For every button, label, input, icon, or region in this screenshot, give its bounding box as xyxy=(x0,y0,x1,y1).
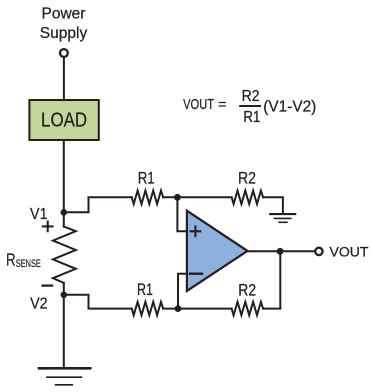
resistor R2 (bottom, feedback) xyxy=(232,302,264,315)
load block LOAD xyxy=(29,100,98,140)
polarity plus (top of RSENSE) xyxy=(43,222,53,232)
op-amp - input marker xyxy=(190,273,202,275)
label Power Supply xyxy=(40,6,88,42)
svg-text:R2: R2 xyxy=(238,282,256,300)
wire: bottom R2 up to output node xyxy=(263,251,280,308)
formula fraction bar xyxy=(240,105,260,107)
wire: power terminal to LOAD xyxy=(63,58,65,99)
svg-text:VOUT: VOUT xyxy=(330,245,369,261)
svg-text:R1: R1 xyxy=(243,109,260,126)
label RSENSE xyxy=(6,250,41,270)
ground (main, below V2) xyxy=(39,368,90,385)
resistor RSENSE (vertical zigzag) xyxy=(53,227,76,283)
svg-text:VOUT: VOUT xyxy=(183,97,214,113)
svg-text:V2: V2 xyxy=(30,296,48,313)
svg-text:R: R xyxy=(6,250,16,270)
wire: LOAD to RSENSE top xyxy=(63,140,65,227)
svg-text:V1: V1 xyxy=(30,206,48,223)
node: output junction dot xyxy=(277,248,284,255)
svg-text:(V1-V2): (V1-V2) xyxy=(263,98,316,115)
terminal VOUT xyxy=(315,248,322,255)
wire: bottom R1 to node B xyxy=(163,308,231,310)
resistor R1 (bottom) xyxy=(132,302,164,315)
node V2 (junction dot) xyxy=(61,292,68,299)
op-amp U1 xyxy=(187,211,248,291)
svg-text:Supply: Supply xyxy=(40,25,88,42)
node A (top R1/R2 junction dot) xyxy=(174,194,181,201)
svg-text:R1: R1 xyxy=(137,281,153,299)
node B (bottom R1/R2 junction dot) xyxy=(175,305,182,312)
svg-text:LOAD: LOAD xyxy=(41,109,87,132)
svg-text:R2: R2 xyxy=(242,88,260,105)
wire: top R1 to node A xyxy=(163,196,231,198)
svg-text:Power: Power xyxy=(42,6,86,23)
svg-text:=: = xyxy=(218,96,227,112)
svg-text:SENSE: SENSE xyxy=(16,258,41,270)
op-amp + input marker xyxy=(191,226,201,236)
wire: V1 to top R1 (right, up, right) xyxy=(64,197,132,212)
resistor R1 (top) xyxy=(132,191,164,204)
wire: RSENSE bottom to V2 node and down to ground xyxy=(63,283,65,368)
polarity minus (bottom of RSENSE) xyxy=(43,284,53,286)
wire: top R2 to ground xyxy=(263,197,283,213)
wire: V2 to bottom R1 (right, down, right) xyxy=(64,295,132,309)
svg-text:R2: R2 xyxy=(238,169,256,187)
resistor R2 (top) xyxy=(232,191,264,204)
ground (at top R2) xyxy=(270,214,295,222)
node V1 (junction dot) xyxy=(61,209,68,216)
wire: node A down to op-amp + input xyxy=(177,197,186,231)
wire: op-amp output to VOUT terminal xyxy=(248,250,315,252)
svg-text:R1: R1 xyxy=(138,169,155,187)
formula VOUT = R2/R1 (V1-V2) xyxy=(183,88,316,126)
wire: bottom junction up to op-amp - input xyxy=(178,274,186,309)
terminal: power supply input xyxy=(60,49,68,57)
